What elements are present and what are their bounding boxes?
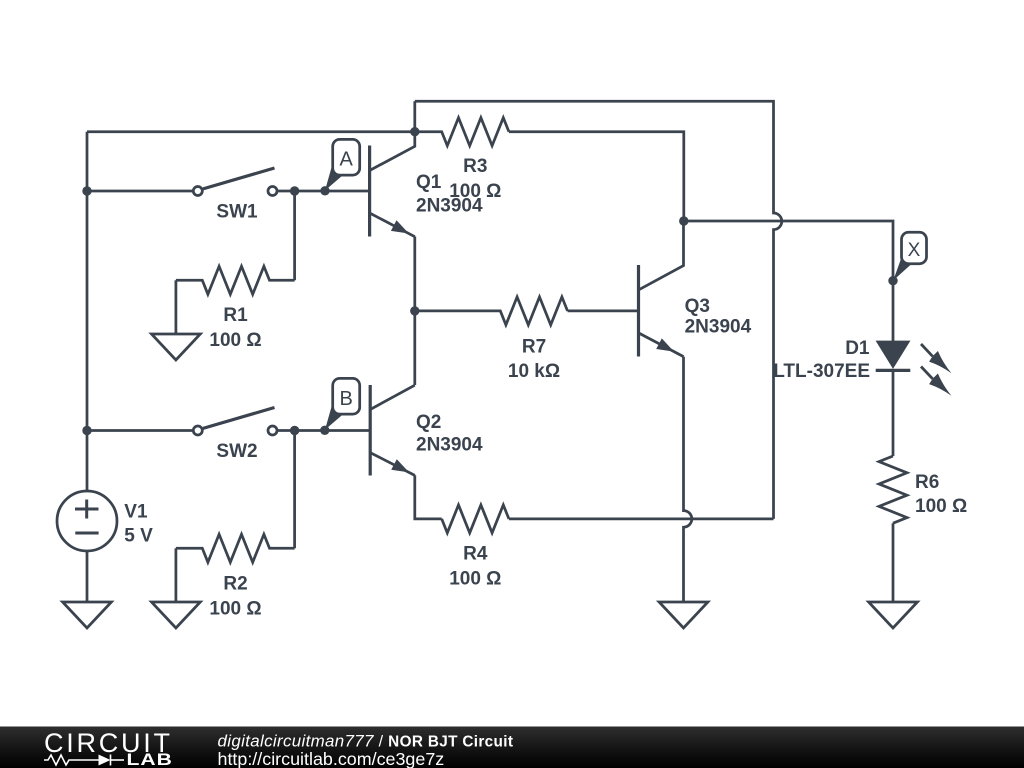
svg-text:5 V: 5 V bbox=[124, 526, 153, 547]
resistor R6 bbox=[879, 456, 907, 523]
svg-text:100 Ω: 100 Ω bbox=[449, 181, 501, 202]
wire R7 right lead to Q3 base bbox=[568, 310, 639, 313]
svg-text:R1: R1 bbox=[223, 305, 248, 326]
svg-text:V1: V1 bbox=[124, 502, 148, 523]
wire V+ corner into R3 node bbox=[413, 101, 416, 132]
node X label flag bbox=[893, 232, 926, 280]
V1 plus sign bbox=[75, 500, 99, 519]
CircuitLab logo diode triangle bbox=[99, 755, 111, 766]
resistor R3 bbox=[415, 118, 509, 146]
svg-text:SW2: SW2 bbox=[216, 441, 257, 462]
junction node B bbox=[320, 426, 329, 435]
svg-text:SW1: SW1 bbox=[216, 202, 258, 223]
resistor R4 bbox=[442, 505, 509, 533]
wire SW2 right segment to Q2 base bbox=[277, 429, 370, 432]
diode D1 LED triangle bbox=[877, 341, 909, 367]
wire R2 ground lead bbox=[175, 548, 178, 602]
junction left rail / SW1 bbox=[82, 186, 91, 195]
svg-text:100 Ω: 100 Ω bbox=[915, 496, 967, 517]
ground under Q3 bbox=[659, 602, 708, 628]
svg-text:Q3: Q3 bbox=[685, 296, 710, 317]
V1 minus sign bbox=[75, 532, 98, 535]
wire SW1 left segment bbox=[87, 190, 194, 193]
ground under R6 bbox=[869, 602, 918, 628]
node B label flag bbox=[325, 378, 360, 429]
svg-text:10 kΩ: 10 kΩ bbox=[508, 361, 560, 382]
transistor Q1 collector bbox=[370, 132, 415, 171]
svg-text:R7: R7 bbox=[522, 337, 546, 358]
wire Q3 emitter to ground with hop bbox=[684, 357, 692, 602]
svg-text:R2: R2 bbox=[223, 573, 247, 594]
transistor Q3 collector bbox=[639, 221, 684, 290]
node A label flag bbox=[325, 139, 360, 190]
junction Q1 emitter / R7 bbox=[410, 306, 419, 315]
wire V1 bottom lead bbox=[86, 551, 89, 602]
junction V+ / R3 / Q1 collector bbox=[410, 127, 419, 136]
svg-text:D1: D1 bbox=[845, 338, 870, 359]
resistor R1 bbox=[176, 266, 295, 294]
D1 light arrow 1 bbox=[921, 344, 951, 373]
transistor Q3 emitter arrow bbox=[656, 338, 674, 351]
svg-text:R3: R3 bbox=[463, 156, 487, 177]
svg-text:2N3904: 2N3904 bbox=[685, 317, 752, 338]
junction SW1 / R1 bbox=[290, 186, 299, 195]
wire R2 right lead vertical bbox=[293, 431, 296, 549]
ground under R2 bbox=[152, 602, 201, 628]
svg-text:R6: R6 bbox=[915, 472, 939, 493]
transistor Q3 emitter bbox=[639, 333, 684, 357]
svg-text:2N3904: 2N3904 bbox=[416, 435, 483, 456]
transistor Q1 emitter bbox=[370, 213, 415, 237]
CircuitLab logo schematic squiggle bbox=[44, 755, 124, 766]
junction node X bbox=[888, 276, 897, 285]
svg-text:LAB: LAB bbox=[127, 751, 173, 768]
wire left vertical rail to V1 bbox=[86, 132, 89, 491]
svg-text:Q2: Q2 bbox=[416, 412, 441, 433]
wire Q1 emitter to Q2 collector rail bbox=[413, 237, 416, 386]
switch SW1 blade bbox=[203, 168, 275, 189]
transistor Q2 bar bbox=[369, 385, 372, 476]
svg-text:X: X bbox=[908, 240, 921, 261]
switch SW1 terminal circles bbox=[193, 187, 202, 196]
wire SW1 right segment to Q1 base bbox=[277, 190, 370, 193]
junction SW2 / R2 bbox=[290, 426, 299, 435]
transistor Q1 emitter arrow bbox=[391, 220, 409, 233]
transistor Q2 emitter arrow bbox=[391, 459, 409, 472]
transistor Q1 bar bbox=[368, 146, 371, 237]
transistor Q3 bar bbox=[637, 265, 640, 357]
svg-text:LTL-307EE: LTL-307EE bbox=[773, 361, 870, 382]
svg-text:B: B bbox=[340, 388, 353, 410]
D1 light arrow 2 bbox=[921, 367, 951, 396]
svg-text:100 Ω: 100 Ω bbox=[209, 598, 261, 619]
svg-text:digitalcircuitman777 / NOR BJT: digitalcircuitman777 / NOR BJT Circuit bbox=[218, 731, 514, 750]
resistor R7 bbox=[415, 297, 568, 325]
wire output node to LED bbox=[684, 221, 893, 341]
voltage source V1 circle bbox=[57, 491, 117, 551]
wire R3 right to Q3 collector node bbox=[509, 132, 684, 221]
diode D1 cathode bar bbox=[876, 369, 911, 372]
svg-text:http://circuitlab.com/ce3ge7z: http://circuitlab.com/ce3ge7z bbox=[218, 749, 445, 768]
wire Q2 emitter down to R4 bbox=[415, 475, 442, 519]
ground under R1 bbox=[152, 334, 201, 360]
svg-text:100 Ω: 100 Ω bbox=[449, 569, 501, 590]
wire R1 ground lead bbox=[175, 280, 178, 334]
svg-text:A: A bbox=[340, 149, 354, 171]
transistor Q2 emitter bbox=[370, 453, 415, 476]
svg-text:R4: R4 bbox=[463, 544, 488, 565]
wire R6 to ground bbox=[892, 523, 895, 602]
svg-text:Q1: Q1 bbox=[416, 172, 442, 193]
switch SW2 terminal circles bbox=[193, 426, 202, 435]
switch SW2 blade bbox=[203, 408, 275, 429]
ground under V1 bbox=[63, 602, 112, 628]
wire top-left horizontal rail bbox=[87, 130, 415, 133]
svg-text:100 Ω: 100 Ω bbox=[209, 330, 261, 351]
wire LED to R6 bbox=[892, 370, 895, 456]
transistor Q2 collector bbox=[370, 385, 415, 409]
wire top horizontal and right vertical with hop bbox=[415, 101, 782, 519]
resistor R2 bbox=[176, 534, 295, 562]
junction left rail / SW2 bbox=[82, 426, 91, 435]
wire R4 right lead to right rail bbox=[509, 518, 774, 521]
junction node A bbox=[320, 186, 329, 195]
wire R1 right lead vertical bbox=[293, 191, 296, 280]
wire SW2 left segment bbox=[87, 429, 194, 432]
junction Q3 collector / output bbox=[679, 216, 688, 225]
